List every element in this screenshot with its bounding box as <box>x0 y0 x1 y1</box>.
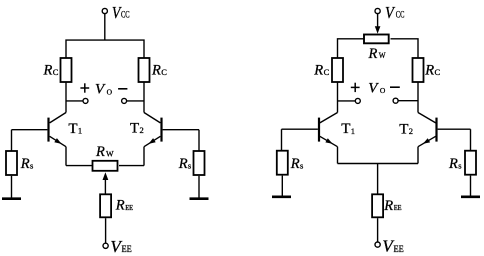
svg-text:R: R <box>151 63 161 79</box>
svg-text:2: 2 <box>140 125 144 135</box>
svg-text:CC: CC <box>121 9 130 19</box>
svg-text:R: R <box>178 156 188 172</box>
svg-text:R: R <box>115 198 125 214</box>
svg-text:V: V <box>385 4 396 22</box>
svg-text:T: T <box>130 120 139 136</box>
svg-text:1: 1 <box>78 126 82 136</box>
svg-text:R: R <box>448 156 458 172</box>
svg-text:W: W <box>379 51 386 60</box>
svg-text:EE: EE <box>122 245 132 255</box>
svg-text:s: s <box>188 161 191 171</box>
svg-text:C: C <box>53 67 59 77</box>
svg-text:EE: EE <box>394 203 402 212</box>
svg-text:R: R <box>290 156 300 172</box>
svg-text:EE: EE <box>125 203 133 212</box>
svg-text:2: 2 <box>409 126 413 136</box>
svg-text:s: s <box>458 161 461 171</box>
svg-text:s: s <box>30 161 33 171</box>
svg-text:R: R <box>313 63 323 79</box>
svg-text:O: O <box>380 86 386 95</box>
svg-text:EE: EE <box>394 245 404 255</box>
svg-text:C: C <box>161 67 167 77</box>
svg-text:T: T <box>68 121 77 137</box>
svg-text:1: 1 <box>351 126 355 136</box>
svg-text:CC: CC <box>396 9 405 19</box>
svg-text:O: O <box>107 87 113 96</box>
svg-text:R: R <box>43 63 53 79</box>
svg-text:R: R <box>368 46 378 62</box>
svg-text:R: R <box>383 198 393 214</box>
svg-text:s: s <box>300 161 303 171</box>
svg-text:R: R <box>424 63 434 79</box>
svg-text:C: C <box>324 67 330 77</box>
svg-text:R: R <box>20 156 30 172</box>
svg-text:V: V <box>95 82 106 98</box>
svg-text:V: V <box>368 80 379 96</box>
svg-text:R: R <box>95 144 105 160</box>
svg-text:T: T <box>341 121 350 137</box>
svg-text:T: T <box>399 121 408 137</box>
svg-text:C: C <box>435 67 441 77</box>
svg-text:W: W <box>106 149 114 159</box>
